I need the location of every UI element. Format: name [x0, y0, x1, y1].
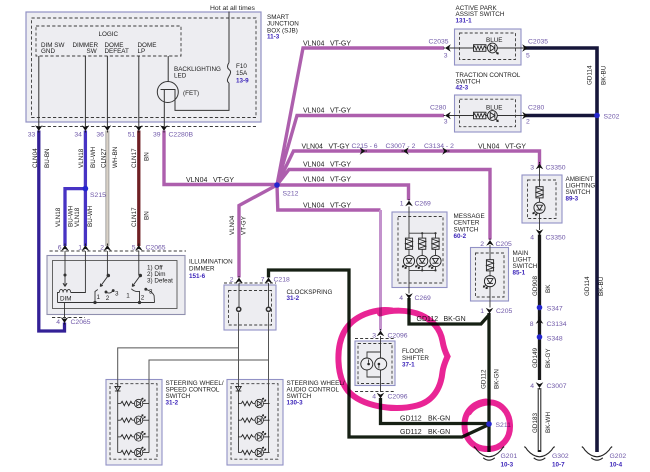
connector C2065 pin 4 arrow — [61, 317, 69, 324]
wire DIMMER SW from LOGIC to pin 34 — [84, 56, 86, 127]
svg-text:WH-BN: WH-BN — [112, 146, 119, 168]
connector C3134 pin 8 arrow — [536, 317, 544, 324]
svg-text:BK-BU: BK-BU — [601, 65, 608, 85]
illumination dimmer inner box — [53, 261, 178, 309]
wire GD112 BK-GN floor shifter C2096 pin 4 down then right to S211 — [381, 398, 490, 424]
svg-text:C2096: C2096 — [388, 394, 408, 401]
svg-text:3: 3 — [530, 165, 534, 172]
wire pin3 to resistor — [539, 166, 541, 187]
connector C2065 arrows pins 6,1,2,5 — [61, 244, 69, 251]
wire VLN04 VT-GY S212 diagonal up to run for C2035 — [277, 48, 444, 185]
wire resistor to LED — [489, 271, 491, 277]
wire VLN04 VT-GY S212 diagonal up to run for C280 — [277, 116, 444, 186]
svg-text:31-2: 31-2 — [166, 400, 179, 407]
svg-text:F10: F10 — [236, 63, 247, 70]
wire BK-BU navy from C2035 pin 5 to S202 and down to G202 — [524, 48, 597, 452]
svg-text:BK-BU: BK-BU — [598, 276, 605, 296]
svg-text:BK-WH: BK-WH — [545, 412, 552, 433]
top bus — [409, 232, 436, 234]
connector C2280B dashed line under SJB — [32, 126, 257, 128]
svg-text:2: 2 — [526, 119, 530, 126]
message center LEDs — [402, 255, 414, 268]
svg-text:C280: C280 — [528, 105, 544, 112]
wire VLN18 BU-WH from SJB pin 34 to splice S215 and dimmer pin 1 — [84, 131, 87, 247]
svg-text:GD112: GD112 — [400, 429, 422, 436]
wire LOGIC to FET gate — [167, 56, 169, 82]
transistor FET backlighting driver — [157, 82, 178, 103]
connector C2065 pin4 dashed stub — [52, 317, 85, 319]
connector C2096 dashed stubs — [355, 338, 395, 340]
svg-text:4: 4 — [530, 235, 534, 242]
svg-text:VT-GY: VT-GY — [330, 177, 351, 184]
marker circle around S211 — [465, 402, 511, 450]
svg-text:DIMMER: DIMMER — [189, 266, 215, 273]
svg-text:10-7: 10-7 — [552, 462, 565, 469]
wire pin 6 to potentiometer wiper — [64, 251, 66, 283]
resistor — [474, 45, 486, 52]
svg-text:5: 5 — [526, 53, 530, 60]
svg-text:13-9: 13-9 — [236, 77, 249, 84]
svg-text:VT-GY: VT-GY — [213, 177, 234, 184]
svg-text:85-1: 85-1 — [513, 270, 526, 277]
svg-text:GD114: GD114 — [587, 65, 594, 85]
svg-text:C3134: C3134 — [547, 321, 567, 328]
row 4 — [118, 447, 149, 457]
svg-text:BU-WH: BU-WH — [87, 205, 94, 227]
SJB LOGIC dashed box — [36, 26, 181, 56]
connector C205 pin 1 arrow — [486, 308, 494, 315]
wire DOME DEFEAT from LOGIC to pin 36 — [106, 56, 108, 127]
svg-text:4: 4 — [372, 394, 376, 401]
wire FET source to fuse — [175, 83, 229, 110]
row 1 — [118, 398, 149, 408]
svg-text:GD183: GD183 — [532, 413, 539, 433]
smart junction box (SJB) outline — [26, 12, 261, 122]
svg-text:VT-GY: VT-GY — [330, 162, 351, 169]
wire GD112 BK-GN from main light switch C205 pin 1 down through S211 to G201 — [487, 313, 490, 452]
wire GD908 BK ambient C3350 pin 4 down through S347/C3134/S348 to C3007 — [538, 235, 541, 381]
wire pin 3 in — [367, 336, 381, 358]
svg-text:DIM: DIM — [60, 296, 72, 303]
pot right lead to pin 1 wire — [71, 251, 86, 293]
svg-text:C269: C269 — [415, 201, 431, 208]
wire C218 pin 7 to right terminal — [268, 283, 270, 307]
svg-text:VT-GY: VT-GY — [330, 202, 351, 209]
switch dome lp (pin 5) — [138, 251, 140, 275]
svg-text:LOGIC: LOGIC — [99, 31, 119, 38]
svg-text:15A: 15A — [236, 70, 248, 77]
connector C218 dashed line above clockspring — [224, 282, 276, 284]
main light resistor — [486, 260, 493, 271]
right bus — [148, 384, 150, 453]
svg-text:CLN17: CLN17 — [131, 207, 138, 227]
svg-text:GD112: GD112 — [481, 369, 488, 389]
branch 2 — [421, 233, 423, 270]
svg-text:VLN04: VLN04 — [302, 144, 324, 151]
svg-text:33: 33 — [28, 132, 36, 139]
through wire — [449, 47, 474, 49]
svg-text:VT-GY: VT-GY — [505, 144, 526, 151]
wire VLN04 VT-GY S212 down then right toward floor shifter — [277, 185, 381, 210]
connector C2280B arrows pins 33,34,36,51,39 — [35, 125, 43, 132]
wire CLN17 BN from SJB pin 51 to dimmer pin 5 — [137, 131, 140, 247]
ground G302 — [524, 447, 554, 461]
svg-text:C3350: C3350 — [546, 165, 566, 172]
svg-text:BK-GY: BK-GY — [545, 348, 552, 368]
svg-text:Hot at all times: Hot at all times — [210, 5, 256, 12]
wire CLN04 BU-BN from SJB pin 33 loop to dimmer pin 4 — [39, 131, 65, 332]
ground G201 — [474, 447, 504, 461]
svg-text:BLUE: BLUE — [486, 105, 502, 112]
svg-text:BK-GN: BK-GN — [428, 429, 450, 436]
main light LED — [483, 276, 495, 289]
svg-text:VLN04: VLN04 — [303, 41, 325, 48]
wire VLN04 VT-GY S212 to main light switch C205 pin 2 — [277, 170, 490, 240]
bulb right — [375, 358, 387, 370]
dimmer bottom rail — [58, 302, 155, 304]
svg-text:C2035: C2035 — [429, 39, 449, 46]
diode — [115, 386, 121, 391]
svg-text:VT-GY: VT-GY — [330, 41, 351, 48]
wire LED to pin4 — [539, 213, 541, 230]
svg-text:2: 2 — [106, 295, 110, 302]
svg-text:3: 3 — [115, 291, 119, 298]
svg-text:34: 34 — [74, 132, 82, 139]
illumination dimmer box — [47, 256, 185, 315]
svg-text:(FET): (FET) — [183, 90, 199, 97]
ambient lighting switch box — [522, 175, 562, 223]
svg-text:1: 1 — [480, 308, 484, 315]
marker ellipse around floor shifter — [338, 310, 447, 408]
wire VT-GY light run down to floor shifter C2096 pin 3 — [379, 210, 382, 331]
wire VLN04 VT-GY S212 right then down to message center C269 pin 1 — [277, 185, 409, 200]
svg-text:C280: C280 — [430, 105, 446, 112]
clockspring inner dashed — [229, 291, 272, 326]
right terminal — [266, 307, 270, 311]
svg-text:BN: BN — [144, 152, 151, 161]
illumination LED — [488, 43, 499, 54]
svg-text:BK-GN: BK-GN — [494, 369, 501, 389]
svg-text:42-3: 42-3 — [456, 85, 469, 92]
svg-text:VLN18: VLN18 — [55, 207, 62, 227]
message center resistors — [405, 238, 412, 249]
svg-text:GD149: GD149 — [532, 348, 539, 368]
svg-text:89-3: 89-3 — [566, 196, 579, 203]
svg-text:7: 7 — [261, 277, 265, 284]
svg-text:1: 1 — [78, 245, 82, 252]
svg-text:C205: C205 — [496, 241, 512, 248]
connector C269 pin 4 arrow — [405, 293, 413, 300]
wire fuse to hot at all times — [228, 12, 230, 63]
svg-text:151-6: 151-6 — [189, 273, 206, 280]
svg-text:C3007 - 2: C3007 - 2 — [386, 143, 416, 150]
wire LED to pin1 — [489, 286, 491, 308]
steering wheel/speed control switch box — [106, 380, 162, 466]
svg-text:C3134 - 2: C3134 - 2 — [424, 143, 454, 150]
splice S202 — [594, 113, 600, 119]
inline connector C3007-2 arrow — [402, 147, 409, 155]
svg-text:39: 39 — [153, 132, 161, 139]
svg-text:S348: S348 — [547, 336, 563, 343]
wire GD183 BK-WH from C3007 down to G302 — [538, 388, 542, 452]
svg-text:C3007: C3007 — [547, 383, 567, 390]
svg-text:C3350: C3350 — [546, 235, 566, 242]
svg-text:VT-GY: VT-GY — [329, 144, 350, 151]
svg-text:5: 5 — [132, 245, 136, 252]
svg-text:4: 4 — [56, 319, 60, 326]
ground G202 — [582, 447, 612, 461]
svg-text:8: 8 — [530, 321, 534, 328]
svg-text:4: 4 — [530, 383, 534, 390]
thin line branch to speed control switch diode — [118, 348, 239, 389]
branch 3 — [435, 233, 437, 270]
splice S211 — [486, 421, 492, 427]
message center switch box — [392, 212, 447, 288]
svg-text:S347: S347 — [547, 306, 563, 313]
svg-text:3: 3 — [444, 119, 448, 126]
svg-text:10-4: 10-4 — [610, 462, 623, 469]
left terminal — [237, 307, 241, 311]
svg-text:10-3: 10-3 — [501, 462, 514, 469]
svg-text:SW: SW — [87, 48, 97, 55]
svg-text:LP: LP — [138, 48, 146, 55]
svg-text:3: 3 — [372, 333, 376, 340]
svg-text:BU-BN: BU-BN — [44, 148, 51, 168]
svg-text:C2280B: C2280B — [169, 132, 194, 139]
svg-text:VLN04: VLN04 — [229, 215, 236, 235]
row 3 — [118, 431, 149, 441]
svg-text:1: 1 — [126, 293, 130, 300]
svg-text:BK-GN: BK-GN — [428, 416, 450, 423]
svg-text:3: 3 — [444, 53, 448, 60]
svg-text:VT-GY: VT-GY — [330, 108, 351, 115]
left bus — [117, 384, 119, 453]
svg-text:CLN27: CLN27 — [100, 148, 107, 168]
svg-text:CLN04: CLN04 — [32, 148, 39, 168]
svg-text:2: 2 — [480, 241, 484, 248]
exit wire to pin 4 — [408, 270, 410, 293]
connector C269 pin 1 arrow — [405, 199, 413, 206]
svg-text:1: 1 — [400, 201, 404, 208]
svg-text:60-2: 60-2 — [454, 233, 467, 240]
connector C2035 arrows pins 3,5 — [444, 44, 451, 52]
svg-text:DEFEAT: DEFEAT — [105, 48, 130, 55]
SJB outer dashed box — [32, 18, 257, 118]
svg-text:ILLUMINATION: ILLUMINATION — [189, 259, 233, 266]
svg-text:G201: G201 — [501, 453, 518, 460]
connector C2065 dashed line above dimmer — [50, 250, 187, 252]
traction control switch box — [455, 95, 522, 132]
svg-text:VLN04: VLN04 — [303, 108, 325, 115]
svg-text:C2065: C2065 — [146, 245, 166, 252]
svg-text:3: 3 — [149, 289, 153, 296]
floor shifter box — [355, 341, 395, 386]
row 2 — [118, 415, 149, 425]
wire VLN04 VT-GY S212 down-left to clockspring C218 pin 2 — [239, 185, 277, 278]
illumination LED — [488, 111, 499, 122]
wire C218 pin 2 to left terminal — [238, 283, 240, 307]
svg-text:3) Defeat: 3) Defeat — [147, 278, 173, 285]
svg-text:G302: G302 — [552, 453, 569, 460]
through wire — [449, 115, 474, 117]
svg-text:BN: BN — [144, 211, 151, 220]
svg-text:VLN18: VLN18 — [74, 207, 81, 227]
svg-text:2: 2 — [100, 245, 104, 252]
connector C280 arrows pins 3,2 — [444, 112, 451, 120]
svg-text:BK: BK — [545, 284, 552, 293]
svg-text:C218: C218 — [274, 277, 290, 284]
svg-text:C215 - 6: C215 - 6 — [352, 143, 378, 150]
pot left lead to bottom rail — [58, 293, 60, 303]
wire VLN18 BU-WH branch S215 to dimmer pin 6 — [65, 189, 85, 246]
svg-text:BU-WH: BU-WH — [90, 146, 97, 168]
wire GD112 BK-GN message center C269 pin 4 down and right to C205 vertical — [409, 298, 489, 324]
svg-text:2: 2 — [230, 277, 234, 284]
svg-text:G202: G202 — [610, 453, 627, 460]
svg-text:VT-GY: VT-GY — [241, 215, 248, 235]
svg-text:6: 6 — [58, 245, 62, 252]
svg-text:C2065: C2065 — [71, 319, 91, 326]
svg-text:VLN18: VLN18 — [78, 148, 85, 168]
svg-text:C269: C269 — [415, 295, 431, 302]
wire GD112 BK-GN from clockspring C218 pin 7 up over and down to S211 — [269, 270, 490, 437]
branch 1 — [408, 233, 410, 270]
splice S347 — [537, 305, 543, 311]
svg-text:36: 36 — [96, 132, 104, 139]
splice S212 — [274, 182, 280, 188]
svg-text:1: 1 — [97, 294, 101, 301]
right bus — [268, 384, 270, 453]
svg-text:VLN04: VLN04 — [186, 177, 208, 184]
wire pin2 to resistor — [489, 245, 491, 260]
potentiometer DIM — [59, 289, 70, 292]
connector C3350 pin 4 arrow — [536, 229, 544, 236]
svg-text:GD908: GD908 — [532, 276, 539, 296]
wire DIM SW GND from LOGIC to pin 33 — [38, 56, 40, 127]
connector C218 arrows pins 2,7 — [235, 276, 243, 283]
svg-text:31-2: 31-2 — [287, 295, 300, 302]
svg-text:GD114: GD114 — [584, 276, 591, 296]
wire resistor to LED — [539, 198, 541, 203]
wire FET drain to pin 39 — [163, 102, 165, 127]
bulb left — [361, 358, 373, 370]
svg-text:131-1: 131-1 — [456, 18, 473, 25]
thin line clockspring right terminal down to audio switch right bus — [268, 313, 270, 384]
connector C205 pin 2 arrow — [486, 239, 494, 246]
svg-text:2: 2 — [141, 295, 145, 302]
bottom bus — [409, 269, 436, 271]
svg-text:51: 51 — [128, 132, 136, 139]
wire rail to pin 4 — [64, 303, 66, 319]
wire VLN04 VT-GY S212 to run with inline connectors C215/C3007/C3134 to ambient C3350 pin 3 — [277, 151, 540, 185]
inline connector C3134-2 arrow — [442, 147, 449, 155]
inline connector C215-6 arrow — [360, 147, 367, 155]
svg-text:S212: S212 — [283, 191, 299, 198]
wire VLN04 VT-GY from SJB pin 39 down to splice S212 — [164, 131, 277, 185]
switch dome defeat (pin 2) — [106, 251, 108, 275]
svg-text:BK-GN: BK-GN — [444, 316, 466, 323]
wire bulbs to pin 4 — [367, 370, 381, 392]
svg-text:S215: S215 — [90, 192, 106, 199]
connector C3350 pin 3 arrow — [536, 162, 544, 169]
diode — [236, 386, 242, 391]
left bus — [238, 384, 240, 453]
clockspring box — [224, 285, 276, 330]
thin line clockspring left terminal down to steering boxes — [238, 313, 240, 389]
main light switch box — [471, 248, 509, 302]
svg-text:VLN04: VLN04 — [303, 202, 325, 209]
splice S215 — [83, 186, 89, 192]
svg-text:C2035: C2035 — [528, 39, 548, 46]
svg-text:CLN17: CLN17 — [131, 148, 138, 168]
svg-text:C2096: C2096 — [388, 333, 408, 340]
connector C3007 pin 4 arrow — [536, 382, 544, 389]
wire DOME LP from LOGIC to pin 51 — [138, 56, 140, 127]
wire CLN27 WH-BN from SJB pin 36 to dimmer pin 2 — [106, 131, 110, 247]
splice S348 — [537, 334, 543, 340]
svg-text:S202: S202 — [604, 114, 620, 121]
svg-text:VLN04: VLN04 — [303, 162, 325, 169]
wire pin1 into box — [408, 207, 410, 234]
thin line branch to speed control switch right bus — [149, 360, 269, 384]
svg-text:VLN04: VLN04 — [478, 144, 500, 151]
connector C2096 pin 3 arrow — [377, 329, 385, 336]
svg-text:11-3: 11-3 — [267, 34, 280, 41]
active park assist switch box — [455, 29, 522, 65]
svg-text:VLN04: VLN04 — [303, 177, 325, 184]
svg-text:37-1: 37-1 — [402, 362, 415, 369]
svg-text:GND: GND — [41, 48, 55, 55]
steering wheel/audio control switch box — [227, 380, 283, 466]
connector C2096 pin 4 arrow — [377, 393, 385, 400]
illumination LED — [533, 202, 545, 215]
switch rows — [238, 398, 269, 457]
resistor — [536, 187, 543, 198]
fuse F10 element — [227, 63, 230, 84]
svg-text:130-3: 130-3 — [287, 400, 304, 407]
svg-text:C205: C205 — [496, 308, 512, 315]
resistor — [474, 112, 486, 119]
svg-text:GD112: GD112 — [400, 416, 422, 423]
svg-text:LED: LED — [174, 73, 187, 80]
svg-text:BLUE: BLUE — [486, 37, 502, 44]
svg-text:4: 4 — [399, 295, 403, 302]
wire BK-BU navy from C280 pin 2 to S202 — [524, 114, 597, 118]
